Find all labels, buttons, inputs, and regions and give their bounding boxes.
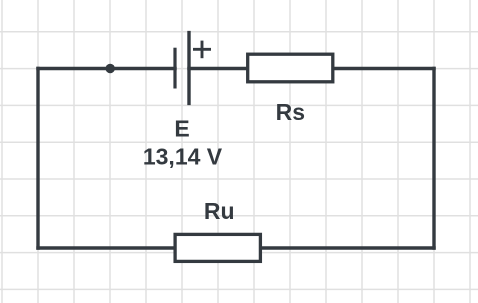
svg-text:E: E: [174, 116, 189, 142]
wire right side: [432, 69, 435, 249]
battery negative plate: [173, 48, 176, 89]
plus sign: [193, 41, 211, 59]
svg-text:13,14 V: 13,14 V: [143, 144, 223, 170]
svg-text:Ru: Ru: [204, 198, 235, 224]
node A (junction dot): [106, 64, 115, 73]
battery positive plate: [187, 31, 190, 105]
battery E: [175, 31, 211, 105]
wire left side: [36, 69, 39, 249]
resistor Rs: [248, 54, 333, 82]
wire Rs to top-right corner: [333, 67, 434, 70]
wire bottom-right segment: [260, 246, 434, 249]
resistor Ru: [175, 234, 260, 261]
wire battery to Rs: [189, 67, 248, 70]
svg-text:Rs: Rs: [276, 99, 305, 125]
wire top-left segment: [38, 67, 175, 70]
wire bottom-left segment: [38, 246, 175, 249]
